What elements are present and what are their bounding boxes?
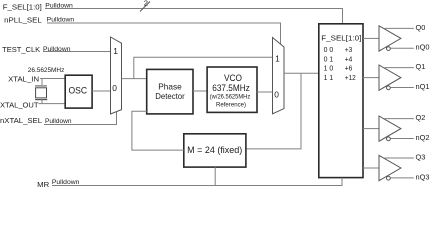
wire phase detector to VCO <box>193 90 207 92</box>
svg-text:1: 1 <box>113 46 118 56</box>
svg-text:1 1: 1 1 <box>324 73 334 82</box>
svg-text:1 0: 1 0 <box>324 64 334 73</box>
svg-text:XTAL_OUT: XTAL_OUT <box>0 100 39 109</box>
VCO U4 <box>207 67 257 112</box>
svg-text:XTAL_IN: XTAL_IN <box>8 74 39 83</box>
svg-text:nPLL_SEL: nPLL_SEL <box>4 15 42 24</box>
wire output nQ0 <box>391 47 414 49</box>
svg-text:OSC: OSC <box>69 85 88 95</box>
output buffer B0 <box>379 26 401 51</box>
wire output Q0 <box>385 27 414 29</box>
wire crystal to XTAL_OUT line <box>41 100 43 104</box>
wire PLL bypass to mux U2 input 1 <box>134 57 273 78</box>
svg-text:+12: +12 <box>345 73 356 82</box>
wire divider to buffer B0 <box>363 37 379 39</box>
mux U1 reference select <box>111 37 122 114</box>
svg-text:nQ0: nQ0 <box>416 43 430 52</box>
svg-text:Q0: Q0 <box>416 23 426 32</box>
svg-text:nQ1: nQ1 <box>416 82 430 91</box>
wire XTAL_OUT to OSC <box>39 103 66 105</box>
mux U2 PLL bypass select <box>273 38 285 114</box>
svg-text:nXTAL_SEL: nXTAL_SEL <box>0 116 42 125</box>
svg-text:0 1: 0 1 <box>324 54 334 63</box>
svg-text:Pulldown: Pulldown <box>45 118 72 125</box>
wire nXTAL_SEL to mux U1 select <box>44 112 117 125</box>
svg-text:(w/26.5625MHz: (w/26.5625MHz <box>210 93 251 100</box>
svg-text:1: 1 <box>275 54 280 64</box>
output divider block with F_SEL table <box>319 24 363 178</box>
wire output nQ1 <box>391 87 414 89</box>
wire OSC output to mux U1 input 0 <box>92 90 110 92</box>
svg-text:M = 24 (fixed): M = 24 (fixed) <box>187 145 242 155</box>
wire output nQ2 <box>391 138 414 140</box>
wire VCO output to mux U2 input 0 <box>257 91 273 93</box>
wire divider M output to phase detector feedback <box>132 111 184 150</box>
output buffer B3 <box>379 155 401 180</box>
svg-text:Detector: Detector <box>155 91 185 101</box>
wire MR to divider M reset <box>214 167 216 185</box>
svg-text:nQ3: nQ3 <box>416 172 430 181</box>
svg-text:2: 2 <box>144 0 148 8</box>
svg-text:0: 0 <box>274 90 279 100</box>
svg-text:+6: +6 <box>345 64 353 73</box>
wire XTAL_IN branch to crystal <box>41 79 43 86</box>
wire nPLL_SEL to mux U2 select <box>47 23 281 44</box>
wire divider to buffer B3 <box>363 167 379 169</box>
wire F_SEL bus to divider block top <box>45 9 343 24</box>
crystal X1 top plate <box>35 85 47 87</box>
svg-text:Q2: Q2 <box>416 113 426 122</box>
output buffer B2 <box>379 116 401 141</box>
wire XTAL_IN to OSC <box>40 78 65 80</box>
oscillator OSC <box>65 75 92 108</box>
svg-text:nQ2: nQ2 <box>416 133 430 142</box>
svg-text:+4: +4 <box>345 54 353 63</box>
wire output Q1 <box>385 67 414 69</box>
wire mux U1 output to phase detector <box>122 78 147 80</box>
svg-text:0: 0 <box>112 83 117 93</box>
wire output Q2 <box>385 118 414 120</box>
svg-text:637.5MHz: 637.5MHz <box>212 83 250 94</box>
wire output Q3 <box>385 157 414 159</box>
crystal X1 bottom plate <box>35 99 47 101</box>
wire TEST_CLK to mux U1 input 1 <box>43 51 111 53</box>
phase detector U3 <box>147 69 193 114</box>
svg-text:MR: MR <box>37 180 49 189</box>
svg-text:F_SEL[1:0]: F_SEL[1:0] <box>3 2 42 11</box>
svg-text:Q3: Q3 <box>416 152 426 161</box>
wire output nQ3 <box>391 177 414 179</box>
wire divider to buffer B2 <box>363 128 379 130</box>
wire MR to output divider bottom <box>52 178 342 186</box>
svg-text:Phase: Phase <box>158 81 182 91</box>
svg-text:TEST_CLK: TEST_CLK <box>2 45 40 54</box>
svg-text:26.5625MHz: 26.5625MHz <box>28 67 65 74</box>
output buffer B1 <box>379 65 401 90</box>
wire divider to buffer B1 <box>363 77 379 79</box>
bus-width marker slash <box>140 2 150 12</box>
svg-text:F_SEL[1:0]: F_SEL[1:0] <box>321 34 361 43</box>
svg-text:Reference): Reference) <box>216 102 246 109</box>
feedback divider M = 24 (fixed) <box>184 134 246 167</box>
wire feedback tap to divider M <box>246 73 301 149</box>
crystal X1 body <box>36 88 47 98</box>
svg-text:Q1: Q1 <box>416 62 426 71</box>
svg-text:+3: +3 <box>345 45 353 54</box>
wire mux U2 output to output divider <box>284 72 319 74</box>
svg-text:0 0: 0 0 <box>324 45 334 54</box>
